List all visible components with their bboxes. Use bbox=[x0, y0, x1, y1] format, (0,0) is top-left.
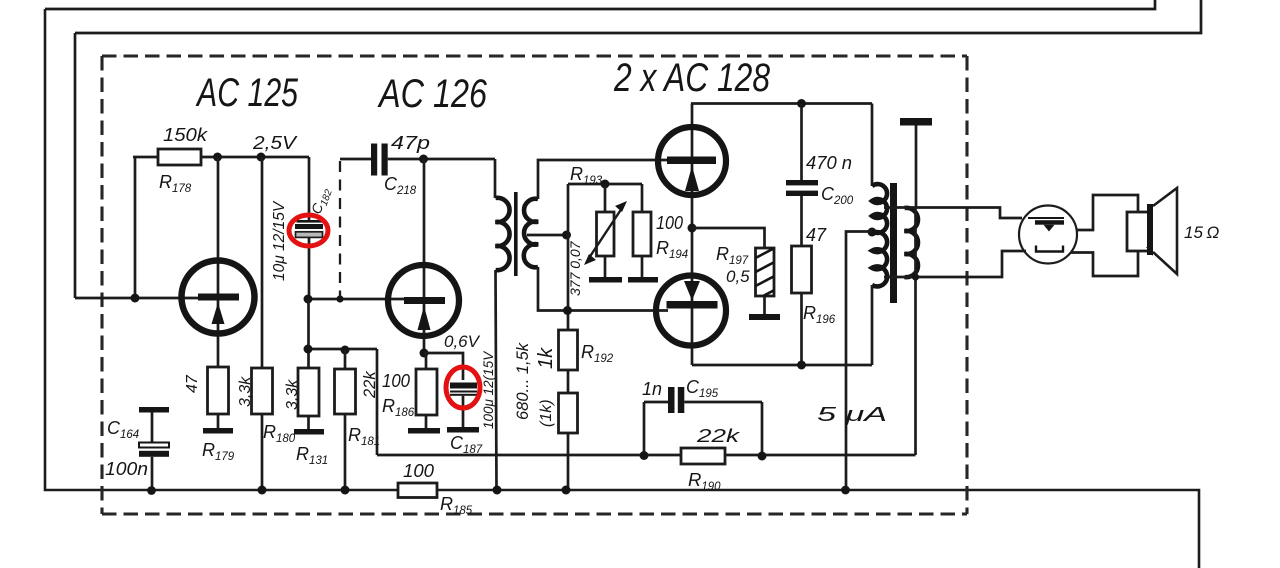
svg-text:150k: 150k bbox=[163, 125, 208, 145]
junction dot C182 base bbox=[304, 295, 313, 304]
junction dot C195 right bbox=[758, 452, 767, 461]
frame line inner top bbox=[45, 0, 1155, 9]
wire AC126 collector-emitter vertical bbox=[423, 159, 426, 353]
svg-text:(1k): (1k) bbox=[538, 399, 555, 427]
dashed module border box bbox=[102, 56, 967, 514]
resistor R192 1k twin boxes bbox=[559, 330, 578, 370]
transformer T2 core bbox=[890, 183, 897, 303]
frame second left vertical down to AC125 base wire bbox=[74, 33, 77, 298]
junction dot 2.5V x262 bbox=[257, 153, 266, 162]
resistor R179 47 bbox=[208, 367, 229, 414]
red highlight ring C182 bbox=[289, 215, 328, 246]
speaker LS1 voice coil box bbox=[1127, 212, 1151, 251]
capacitor C187 100u electrolytic bbox=[450, 383, 477, 389]
svg-text:0,6V: 0,6V bbox=[444, 332, 481, 351]
svg-text:AC 125: AC 125 bbox=[195, 71, 298, 115]
svg-text:5 μA: 5 μA bbox=[817, 404, 887, 426]
wire long feedback line y455 bbox=[377, 454, 916, 457]
ground C187 bbox=[447, 427, 479, 433]
wire y349 bias line bbox=[308, 348, 377, 351]
wire bias network top bracket bbox=[568, 183, 642, 186]
junction dot C164 rail bbox=[147, 486, 156, 495]
junction dot C200 bottom bbox=[797, 361, 806, 370]
resistor R185 100 in rail bbox=[398, 483, 437, 498]
wire R131 top branch bbox=[307, 299, 310, 368]
frame line outer top bbox=[75, 0, 1201, 33]
svg-text:2,5V: 2,5V bbox=[252, 133, 298, 153]
junction dot R192 rail bbox=[562, 486, 571, 495]
transformer T1 center tap wire bbox=[527, 234, 568, 237]
wire top rail of AC125 stage bbox=[133, 156, 309, 159]
junction dot secondary bottom bbox=[912, 273, 919, 280]
junction dot screen line base bbox=[336, 295, 343, 302]
ground R179 bbox=[203, 428, 233, 434]
svg-text:100: 100 bbox=[656, 213, 683, 233]
svg-text:470 n: 470 n bbox=[806, 153, 852, 173]
chassis ground bar bbox=[900, 118, 932, 126]
resistor R196 47 bbox=[792, 246, 812, 293]
transformer T1 core bbox=[514, 192, 518, 276]
transformer T2 primary coil upper bbox=[872, 184, 887, 233]
junction dot x308 y349 bbox=[304, 345, 313, 354]
transformer T2 primary coil lower bbox=[872, 232, 887, 286]
wire plug right upper to speaker bbox=[1077, 195, 1139, 230]
resistor R131 3,3k bbox=[298, 368, 319, 416]
capacitor C200 470n bbox=[800, 104, 803, 181]
transformer T1 secondary top wire to upper AC128 base bbox=[538, 160, 668, 199]
svg-text:47: 47 bbox=[806, 225, 827, 245]
wire AC126 base line bbox=[308, 298, 406, 301]
wire feedback branch down x377 bbox=[376, 349, 379, 455]
wire chassis line continues to secondary bottom bbox=[914, 208, 917, 278]
resistor R180 3,3k bbox=[261, 157, 264, 368]
variable resistor R193 bbox=[604, 184, 607, 212]
junction dot midpoint emitters bbox=[688, 224, 697, 233]
capacitor C164 100n bbox=[139, 407, 169, 413]
svg-text:100n: 100n bbox=[105, 459, 148, 479]
capacitor C195 1n bbox=[644, 401, 668, 404]
wire chassis to secondary top bbox=[915, 126, 918, 208]
wire AC125 collector-emitter vertical bbox=[217, 157, 220, 367]
svg-text:AC 126: AC 126 bbox=[377, 72, 487, 116]
wire feedback from secondary bottom bbox=[914, 277, 917, 455]
junction dot R180 rail bbox=[258, 486, 267, 495]
svg-text:3,3k: 3,3k bbox=[284, 379, 301, 410]
junction dot collector rail x218 bbox=[213, 153, 222, 162]
junction dot x345 y350 bbox=[341, 346, 350, 355]
transformer T1 primary bottom wire bbox=[496, 270, 497, 490]
wire left branch R178 to base bbox=[134, 157, 137, 298]
transistor AC126 bbox=[388, 265, 459, 336]
ground R197 bbox=[749, 314, 780, 320]
ground R194 bbox=[628, 277, 658, 283]
junction dot R181 rail bbox=[341, 486, 350, 495]
svg-text:47p: 47p bbox=[391, 133, 430, 153]
ground R193 bbox=[589, 277, 622, 283]
transformer T1 secondary coil bbox=[524, 199, 538, 268]
transformer T2 primary bottom wire bbox=[871, 285, 874, 365]
svg-text:10μ 12/15V: 10μ 12/15V bbox=[271, 200, 288, 281]
junction dot C200 top bbox=[797, 99, 806, 108]
wire plug right lower to speaker bbox=[1071, 251, 1138, 276]
wire AC125 base from frame bbox=[75, 297, 200, 300]
resistor R194 100 bbox=[641, 184, 644, 212]
transformer T1 primary coil bbox=[496, 198, 510, 270]
svg-text:1k: 1k bbox=[535, 347, 557, 369]
transformer T2 secondary coil bbox=[905, 208, 919, 277]
ground R186 bbox=[408, 428, 440, 434]
transistor Q2 lower AC128 bbox=[656, 276, 726, 346]
transistor Q1 upper AC128 bbox=[658, 127, 726, 195]
junction dot x568 y310 bbox=[563, 306, 572, 315]
svg-text:22k: 22k bbox=[696, 425, 742, 446]
plug socket lower contact bbox=[1036, 246, 1063, 252]
junction dot tap rail bbox=[841, 486, 850, 495]
capacitor C182 10u electrolytic bbox=[308, 157, 311, 220]
dashed screen line between stages bbox=[339, 161, 341, 297]
capacitor C218 47p coupling bbox=[340, 158, 371, 161]
svg-text:2 x AC 128: 2 x AC 128 bbox=[613, 56, 770, 100]
wire emitter to C187 bbox=[424, 353, 463, 380]
svg-text:100: 100 bbox=[403, 461, 434, 481]
junction dot base-R178 bbox=[131, 294, 140, 303]
speaker diaphragm bar bbox=[1147, 204, 1153, 255]
resistor R181 22k bbox=[344, 350, 347, 369]
svg-text:15 Ω: 15 Ω bbox=[1184, 223, 1219, 242]
transformer T1 primary top wire bbox=[494, 159, 497, 198]
plug pin upper contact bbox=[1028, 217, 1064, 219]
wire lower AC128 to transformer bottom bbox=[692, 364, 872, 367]
transformer T2 secondary bottom wire bbox=[884, 251, 1026, 277]
connector plug circle bbox=[1019, 206, 1077, 264]
ground R131 bbox=[294, 429, 324, 435]
transistor AC125 bbox=[182, 261, 255, 334]
junction dot center tap bbox=[562, 231, 571, 240]
resistor R186 100 bbox=[425, 353, 428, 369]
junction dot C195 left bbox=[640, 451, 649, 460]
wire output stage top rail bbox=[691, 102, 872, 105]
junction dot interstage primary rail bbox=[493, 486, 502, 495]
svg-text:100: 100 bbox=[382, 371, 410, 391]
red highlight ring C187 bbox=[446, 367, 480, 408]
svg-text:1n: 1n bbox=[642, 379, 662, 399]
resistor R178 150k bbox=[158, 149, 201, 165]
transformer T1 secondary bottom wire to lower AC128 base bbox=[538, 267, 668, 311]
wire upper AC128 vertical bbox=[691, 104, 694, 366]
svg-text:100μ 12(15V: 100μ 12(15V bbox=[481, 350, 496, 429]
wire midpoint to R197 bbox=[692, 228, 765, 248]
wire T2 tap to rail bbox=[846, 232, 872, 491]
speaker cone bbox=[1153, 188, 1177, 274]
junction dot AC126 emitter bbox=[420, 349, 429, 358]
transformer T2 secondary top wire bbox=[884, 208, 1022, 219]
resistor R190 22k bbox=[681, 448, 725, 464]
wire bias network vertical x568 bbox=[567, 184, 570, 330]
junction dot T2 center tap bbox=[868, 228, 877, 237]
svg-text:47: 47 bbox=[184, 374, 201, 393]
junction dot AC126 collector node bbox=[419, 155, 428, 164]
svg-text:0,5: 0,5 bbox=[726, 267, 750, 286]
junction dot R193 top bbox=[601, 180, 610, 189]
svg-text:680... 1,5k: 680... 1,5k bbox=[514, 342, 532, 420]
transformer T2 primary top wire bbox=[871, 104, 874, 187]
svg-text:377 0,07: 377 0,07 bbox=[567, 240, 583, 296]
thermistor R197 0,5 bbox=[756, 248, 775, 296]
svg-text:3,3k: 3,3k bbox=[237, 376, 254, 407]
